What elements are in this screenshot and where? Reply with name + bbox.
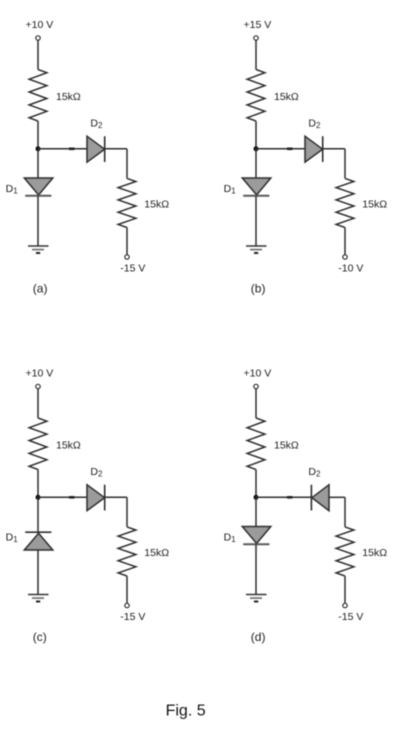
diode D1 (b) [242,178,270,195]
svg-text:-15 V: -15 V [338,611,363,623]
svg-text:-10 V: -10 V [338,262,363,274]
terminal -15 V (a) [125,255,129,259]
svg-text:(c): (c) [33,630,47,644]
wire D1 cathode to ground (d) [255,544,257,594]
wire R1 to node (a) [37,121,39,149]
diode D1 cathode bar (d) [243,543,269,545]
node junction (d) [254,495,259,500]
wire tick mark (b) [287,148,293,151]
diode D2 (a) [87,136,105,162]
terminal +15 V (b) [254,36,258,40]
wire right rail to R2 (d) [344,497,346,527]
svg-text:+10 V: +10 V [26,368,54,380]
diode D1 (d) [242,527,270,544]
wire terminal to R1 (b) [255,40,257,69]
wire right rail to R2 (b) [344,149,346,179]
wire node to D2 anode (b) [256,148,305,150]
svg-text:+10 V: +10 V [244,368,272,380]
resistor R2 15k (a) [118,178,136,227]
resistor R1 15k (a) [29,70,47,122]
wire D2 anode to right rail (d) [329,496,345,498]
svg-text:15kΩ: 15kΩ [144,199,169,211]
wire tick mark (d) [287,496,293,499]
resistor R2 15k (d) [336,527,354,576]
wire R1 to node (c) [37,470,39,498]
wire tick mark (a) [69,148,75,151]
svg-text:-15 V: -15 V [120,262,145,274]
ground symbol (b) [246,246,267,253]
wire D2 cathode to right rail (a) [105,148,127,150]
wire D1 anode to ground (c) [37,550,39,595]
wire R2 to bottom terminal (a) [126,228,128,255]
resistor R1 15k (d) [247,418,265,470]
diode D2 cathode bar (b) [322,136,324,162]
diode D2 cathode bar (d) [310,485,312,511]
wire node to D1 anode (d) [255,497,257,526]
svg-text:(d): (d) [251,630,266,644]
svg-text:+15 V: +15 V [244,19,272,31]
diode D1 cathode bar (b) [243,195,269,197]
node junction (c) [36,495,41,500]
svg-text:+10 V: +10 V [26,19,54,31]
wire node to D2 anode (c) [38,496,87,498]
diode D2 (c) [87,485,105,511]
terminal +10 V (d) [254,384,258,388]
wire node to D2 anode (a) [38,148,87,150]
wire node to D1 cathode (c) [37,497,39,532]
wire R2 to bottom terminal (c) [126,576,128,603]
diode D2 (b) [305,136,323,162]
diode D2 cathode bar (a) [104,136,106,162]
node junction (a) [36,146,41,151]
wire D1 cathode to ground (a) [37,196,39,246]
wire D2 cathode to right rail (b) [323,148,345,150]
wire terminal to R1 (a) [37,40,39,69]
svg-text:15kΩ: 15kΩ [144,547,169,559]
wire D2 cathode to right rail (c) [105,496,127,498]
svg-text:(a): (a) [33,282,48,296]
diode D1 cathode bar (a) [25,195,51,197]
terminal -15 V (c) [125,603,129,607]
node junction (b) [254,146,259,151]
terminal +10 V (a) [36,36,40,40]
wire D1 cathode to ground (b) [255,196,257,246]
wire right rail to R2 (c) [126,497,128,527]
wire tick mark (c) [69,496,75,499]
ground symbol (d) [246,595,267,602]
terminal -15 V (d) [343,603,347,607]
terminal +10 V (c) [36,384,40,388]
wire R2 to bottom terminal (d) [344,576,346,603]
svg-text:15kΩ: 15kΩ [56,440,81,452]
wire terminal to R1 (d) [255,389,257,418]
diode D1 (a) [24,178,53,195]
wire R1 to node (d) [255,470,257,498]
wire node to D2 cathode (d) [256,496,312,498]
resistor R2 15k (c) [118,527,136,576]
svg-text:-15 V: -15 V [120,611,145,623]
wire R2 to bottom terminal (b) [344,228,346,255]
ground symbol (c) [28,595,49,602]
diode D1 (c) [24,533,53,550]
wire R1 to node (b) [255,121,257,149]
diode D2 cathode bar (c) [104,485,106,511]
diode D2 (d) [312,485,329,511]
resistor R1 15k (b) [247,70,265,122]
svg-text:15kΩ: 15kΩ [362,199,387,211]
terminal -10 V (b) [343,255,347,259]
svg-text:15kΩ: 15kΩ [274,440,299,452]
wire right rail to R2 (a) [126,149,128,179]
wire node to D1 anode (b) [255,149,257,178]
svg-text:15kΩ: 15kΩ [274,91,299,103]
svg-text:15kΩ: 15kΩ [362,547,387,559]
ground symbol (a) [28,246,49,253]
svg-text:15kΩ: 15kΩ [56,91,81,103]
wire terminal to R1 (c) [37,389,39,418]
svg-text:(b): (b) [251,282,266,296]
svg-text:Fig. 5: Fig. 5 [166,702,206,719]
resistor R1 15k (c) [29,418,47,470]
resistor R2 15k (b) [336,178,354,227]
diode D1 cathode bar (c) [25,531,51,533]
wire node to D1 anode (a) [37,149,39,178]
